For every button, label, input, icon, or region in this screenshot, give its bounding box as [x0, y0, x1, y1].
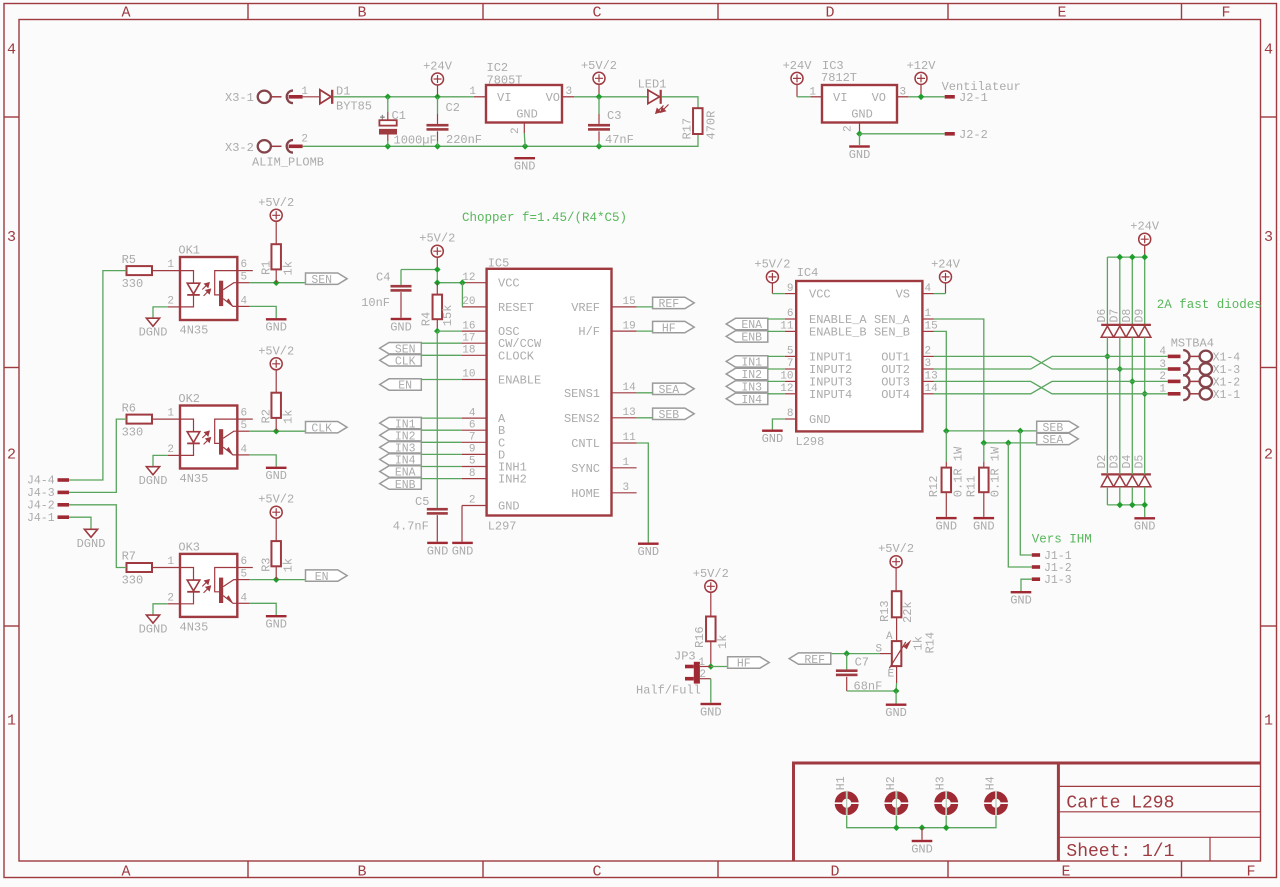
wire R5 to opto	[152, 270, 180, 272]
junction	[596, 94, 603, 101]
svg-text:E: E	[1061, 863, 1070, 880]
wire diode column low	[1144, 487, 1146, 505]
pin 6 stub	[237, 567, 253, 569]
svg-text:Sheet: 1/1: Sheet: 1/1	[1066, 842, 1174, 862]
svg-text:R2: R2	[259, 409, 273, 423]
diode D4	[1126, 476, 1138, 487]
svg-text:3: 3	[7, 229, 16, 246]
svg-text:HF: HF	[662, 322, 676, 335]
net flag REF input	[789, 653, 831, 664]
svg-text:GND: GND	[498, 500, 520, 514]
wire pin4 to GND	[237, 454, 249, 456]
resistor R11	[983, 443, 985, 462]
svg-text:Vers IHM: Vers IHM	[1032, 533, 1092, 547]
svg-text:330: 330	[122, 277, 144, 291]
hole H3	[938, 795, 955, 812]
title block	[794, 763, 1261, 861]
wire SEN_B net	[934, 331, 1037, 431]
svg-text:GND: GND	[700, 705, 722, 719]
svg-text:C2: C2	[446, 101, 460, 115]
svg-text:R13: R13	[878, 600, 892, 622]
svg-text:470R: 470R	[705, 111, 719, 140]
svg-text:+5V/2: +5V/2	[419, 232, 455, 246]
svg-text:JP3: JP3	[674, 649, 696, 663]
pin X1-2	[1168, 380, 1181, 384]
IC4 pin 11	[785, 330, 797, 332]
svg-text:R3: R3	[259, 557, 273, 571]
svg-text:68nF: 68nF	[854, 680, 883, 694]
svg-text:VCC: VCC	[809, 288, 831, 302]
ground GND	[266, 467, 287, 469]
wire J4-1 to DGND	[69, 517, 91, 529]
svg-text:1: 1	[1264, 713, 1273, 730]
wire OUT2 to X1-3	[934, 356, 1168, 369]
diodes D2-D5	[1101, 473, 1151, 475]
svg-text:4N35: 4N35	[180, 324, 209, 338]
junction	[943, 824, 950, 831]
svg-text:2: 2	[301, 134, 308, 146]
svg-text:GND: GND	[973, 520, 995, 534]
svg-text:A: A	[121, 5, 130, 22]
svg-text:4: 4	[7, 42, 16, 59]
ground DGND	[146, 615, 159, 623]
net flag IN4	[726, 393, 768, 404]
junction	[919, 824, 926, 831]
IC5 pin 3	[612, 492, 637, 494]
ground GND IC5	[452, 542, 473, 544]
pin J2-2	[945, 132, 955, 136]
svg-text:OK3: OK3	[178, 540, 200, 554]
svg-text:ENABLE_B: ENABLE_B	[809, 325, 867, 339]
svg-text:SEN_B: SEN_B	[874, 325, 910, 339]
resistor R5	[127, 266, 153, 275]
junction	[273, 576, 280, 583]
IC5 pin 6	[462, 429, 487, 431]
net flag SEA	[653, 383, 695, 394]
wire diode column	[1106, 257, 1108, 324]
svg-text:J4-3: J4-3	[27, 487, 55, 500]
svg-text:H/F: H/F	[578, 325, 600, 339]
svg-text:E: E	[1057, 5, 1066, 22]
svg-text:SEN: SEN	[311, 274, 332, 287]
svg-text:18: 18	[462, 345, 475, 357]
svg-text:J1-3: J1-3	[1044, 574, 1072, 587]
svg-text:2: 2	[167, 444, 174, 456]
svg-text:6: 6	[241, 556, 248, 568]
svg-text:VCC: VCC	[498, 277, 520, 291]
IC5 pin 18	[462, 354, 487, 356]
svg-text:+5V/2: +5V/2	[878, 542, 914, 556]
svg-text:GND: GND	[514, 160, 536, 174]
net flag IN3 input	[380, 442, 422, 453]
svg-text:1k: 1k	[281, 410, 295, 424]
svg-text:GND: GND	[427, 544, 449, 558]
svg-text:47nF: 47nF	[605, 133, 634, 147]
junction	[893, 688, 900, 695]
svg-text:5: 5	[241, 569, 248, 581]
svg-text:7: 7	[469, 432, 476, 444]
svg-text:GND: GND	[516, 108, 538, 122]
opto phototransistor	[219, 578, 223, 603]
ground GND holes	[912, 840, 933, 842]
svg-text:+24V: +24V	[783, 59, 813, 73]
svg-text:3: 3	[1264, 229, 1273, 246]
svg-text:J2-2: J2-2	[959, 128, 988, 142]
wire pin4 to GND	[237, 602, 249, 604]
IC4 pin 2	[922, 355, 934, 357]
svg-text:1: 1	[167, 259, 174, 271]
svg-text:J1-2: J1-2	[1044, 562, 1072, 575]
net flag SEA	[1037, 433, 1079, 444]
hole H4	[988, 795, 1005, 812]
svg-text:J4-2: J4-2	[27, 500, 55, 513]
wire pin2 to DGND	[168, 603, 180, 605]
IC4 pin 3	[922, 368, 934, 370]
svg-text:C1: C1	[392, 109, 406, 123]
svg-text:6: 6	[241, 408, 248, 420]
svg-text:2: 2	[925, 346, 932, 358]
hole H1	[838, 795, 855, 812]
IC5 pin 4	[462, 417, 487, 419]
diode D5	[1139, 476, 1151, 487]
net flag SEN	[306, 273, 348, 284]
resistor R7	[127, 563, 153, 572]
junction	[385, 143, 392, 150]
svg-text:2: 2	[1159, 371, 1166, 383]
junction	[434, 143, 441, 150]
svg-text:OUT4: OUT4	[881, 388, 910, 402]
svg-text:VO: VO	[546, 91, 560, 105]
diode D9	[1139, 326, 1151, 337]
svg-text:ENABLE: ENABLE	[498, 374, 541, 388]
svg-text:15k: 15k	[441, 305, 455, 327]
svg-text:9: 9	[787, 283, 794, 295]
svg-text:GND: GND	[809, 413, 831, 427]
junction	[434, 94, 441, 101]
pin 6 stub	[237, 418, 253, 420]
wire OUT3 to X1-2	[934, 381, 1168, 393]
wire pin2 to DGND	[168, 306, 180, 308]
potentiometer R14	[892, 641, 902, 666]
ground GND	[266, 318, 287, 320]
IC4 pin 6	[785, 318, 797, 320]
wire R7 to opto	[152, 567, 180, 569]
svg-text:C7: C7	[855, 656, 869, 670]
svg-text:DGND: DGND	[139, 474, 168, 488]
svg-text:GND: GND	[851, 108, 873, 122]
ground GND C5	[427, 542, 448, 544]
net flag IN2 input	[380, 430, 422, 441]
svg-text:X1-3: X1-3	[1213, 364, 1241, 377]
ground GND IC4	[762, 430, 783, 432]
svg-text:E: E	[888, 669, 895, 681]
svg-text:Ventilateur: Ventilateur	[942, 80, 1021, 94]
junction	[856, 131, 863, 138]
junction	[385, 94, 392, 101]
hole H2	[888, 795, 905, 812]
wire to GND	[921, 828, 923, 840]
svg-text:+24V: +24V	[931, 257, 961, 271]
svg-text:LED1: LED1	[638, 78, 667, 92]
svg-text:+5V/2: +5V/2	[581, 59, 617, 73]
svg-text:+24V: +24V	[1130, 220, 1160, 234]
IC4 pin 5	[785, 355, 797, 357]
IC5 pin 10	[462, 379, 487, 381]
wire OUT4 to X1-1	[934, 381, 1168, 393]
svg-text:DGND: DGND	[77, 537, 106, 551]
svg-text:3: 3	[925, 358, 932, 370]
wire pin5 out	[237, 430, 249, 432]
svg-text:A: A	[886, 631, 893, 643]
ground GND CNTL	[638, 543, 659, 545]
net flag IN1	[726, 356, 768, 367]
svg-text:J4-1: J4-1	[27, 512, 55, 525]
net flag ENA	[726, 318, 768, 329]
junction	[1017, 428, 1024, 435]
svg-text:EN: EN	[398, 380, 412, 393]
svg-text:X1-2: X1-2	[1213, 377, 1241, 390]
svg-text:OK2: OK2	[178, 392, 200, 406]
svg-text:1k: 1k	[281, 558, 295, 572]
junction	[708, 663, 715, 670]
junction	[1141, 391, 1148, 398]
svg-text:4N35: 4N35	[180, 472, 209, 486]
svg-text:17: 17	[462, 332, 475, 344]
svg-text:2A fast diodes: 2A fast diodes	[1157, 298, 1262, 312]
svg-text:ALIM_PLOMB: ALIM_PLOMB	[252, 156, 324, 170]
svg-text:4: 4	[1159, 346, 1166, 358]
svg-text:SENS2: SENS2	[564, 412, 600, 426]
svg-text:R4: R4	[420, 312, 434, 326]
IC5 pin 5	[462, 466, 487, 468]
ground DGND	[146, 467, 159, 475]
wire diode column	[1119, 257, 1121, 324]
net flag EN input	[380, 379, 422, 390]
svg-text:4: 4	[1264, 42, 1273, 59]
pin J2-1	[945, 95, 955, 99]
svg-text:R16: R16	[693, 626, 707, 648]
wire diode column mid	[1131, 337, 1133, 474]
ground GND R12	[936, 517, 957, 519]
svg-text:10: 10	[462, 369, 475, 381]
wire diode column	[1131, 257, 1133, 324]
wire OSC net down to C5	[437, 330, 462, 332]
net flag IN4 input	[380, 454, 422, 465]
wire C7 to gnd node	[847, 690, 896, 692]
wire holes gnd bus	[847, 816, 996, 828]
wire to J1-1	[1020, 431, 1032, 555]
svg-text:4: 4	[469, 407, 476, 419]
wire diode column low	[1131, 487, 1133, 505]
svg-text:220nF: 220nF	[446, 133, 482, 147]
svg-text:RESET: RESET	[498, 301, 534, 315]
svg-text:330: 330	[122, 574, 144, 588]
pin J1-2	[1032, 565, 1040, 569]
IC5 pin 16	[462, 330, 487, 332]
IC5 pin 12	[462, 282, 487, 284]
svg-text:1: 1	[167, 408, 174, 420]
svg-text:R7: R7	[122, 550, 136, 564]
net flag ENA input	[380, 466, 422, 477]
svg-text:CLOCK: CLOCK	[498, 349, 535, 363]
IC4 pin 10	[785, 380, 797, 382]
svg-text:D: D	[830, 863, 839, 880]
IC5 pin 20	[462, 306, 487, 308]
svg-text:CNTL: CNTL	[571, 437, 600, 451]
svg-text:REF: REF	[804, 654, 825, 667]
wire R6 to opto	[152, 418, 180, 420]
svg-text:H1: H1	[835, 776, 848, 790]
wire pin5 out	[237, 282, 249, 284]
wire CNTL to GND	[637, 443, 649, 543]
svg-text:+5V/2: +5V/2	[258, 344, 294, 358]
diodes D6-D9	[1101, 324, 1151, 326]
net flag ENB input	[380, 478, 422, 489]
resistor R4	[436, 283, 438, 295]
svg-text:DGND: DGND	[139, 326, 168, 340]
ground DGND	[146, 318, 159, 326]
opto internal LED	[180, 419, 194, 432]
svg-text:OK1: OK1	[178, 244, 200, 258]
junction	[918, 94, 925, 101]
svg-text:1: 1	[167, 556, 174, 568]
wire J4-4 to R5	[69, 271, 127, 480]
svg-text:8: 8	[469, 468, 476, 480]
svg-text:C: C	[592, 5, 601, 22]
pin 6 stub	[237, 270, 253, 272]
net flag SEB	[653, 408, 695, 419]
junction	[843, 650, 850, 657]
wire pin4 to GND	[237, 305, 249, 307]
junction	[434, 328, 441, 335]
junction	[434, 279, 441, 286]
IC5 pin 17	[462, 342, 487, 344]
svg-text:2: 2	[167, 592, 174, 604]
svg-text:2: 2	[843, 125, 855, 132]
diode D1	[320, 90, 331, 104]
ground GND C4	[391, 318, 412, 320]
opto phototransistor	[219, 281, 223, 306]
net flag IN2	[726, 368, 768, 379]
svg-text:Chopper f=1.45/(R4*C5): Chopper f=1.45/(R4*C5)	[462, 211, 627, 225]
IC4 pin 14	[922, 393, 934, 395]
net flag HF out	[711, 666, 728, 668]
junction	[1104, 353, 1111, 360]
svg-text:22k: 22k	[901, 601, 915, 623]
wire JP3 pin2 to GND	[700, 678, 711, 680]
resistor R2 pull-up	[275, 370, 277, 393]
IC4 pin 12	[785, 393, 797, 395]
svg-text:+5V/2: +5V/2	[693, 567, 729, 581]
svg-text:0.1R 1W: 0.1R 1W	[952, 446, 966, 497]
svg-text:R11: R11	[965, 476, 979, 498]
IC4 pin 1	[922, 318, 934, 320]
ground GND diodes	[1134, 517, 1155, 519]
net flag CLK input	[380, 355, 422, 366]
svg-text:GND: GND	[265, 469, 287, 483]
wire LED to R17	[662, 97, 698, 108]
svg-text:11: 11	[623, 432, 637, 444]
pin J1-1	[1032, 553, 1040, 557]
diode D8	[1126, 326, 1138, 337]
svg-text:R1: R1	[259, 261, 273, 275]
ground DGND J4	[84, 529, 97, 537]
svg-text:BYT85: BYT85	[336, 100, 372, 114]
wire VCC to RESET	[461, 283, 463, 307]
svg-text:VS: VS	[896, 288, 910, 302]
net flag HF	[653, 321, 695, 332]
junction	[273, 428, 280, 435]
svg-text:D8: D8	[1121, 309, 1134, 323]
svg-text:GND: GND	[935, 520, 957, 534]
svg-text:1: 1	[925, 308, 932, 320]
svg-text:SEB: SEB	[658, 409, 679, 422]
net flag SEB	[1037, 421, 1079, 432]
IC5 pin 2	[462, 505, 487, 507]
svg-text:HOME: HOME	[571, 487, 600, 501]
svg-text:D9: D9	[1133, 309, 1146, 323]
junction	[1117, 254, 1124, 261]
svg-text:3: 3	[1159, 359, 1166, 371]
diode D6	[1101, 326, 1113, 337]
svg-text:GND: GND	[637, 545, 659, 559]
svg-text:X1-4: X1-4	[1213, 352, 1241, 365]
wire net +24V top	[333, 96, 474, 98]
svg-text:H4: H4	[985, 776, 998, 790]
wire J1-3 to GND	[1021, 579, 1032, 591]
opto phototransistor	[219, 429, 223, 454]
svg-text:REF: REF	[658, 298, 679, 311]
wire R14 bottom	[896, 666, 898, 683]
svg-text:J4-4: J4-4	[27, 475, 55, 488]
svg-text:1000µF: 1000µF	[394, 134, 437, 148]
svg-text:6: 6	[241, 259, 248, 271]
svg-text:6: 6	[787, 308, 794, 320]
svg-text:VI: VI	[833, 91, 847, 105]
wire diode gnd bus	[1107, 505, 1144, 517]
svg-text:330: 330	[122, 425, 144, 439]
svg-text:MSTBA4: MSTBA4	[1171, 336, 1214, 350]
svg-text:SEA: SEA	[1043, 434, 1064, 447]
junction	[273, 279, 280, 286]
opto photon arrows	[202, 283, 210, 296]
svg-text:1k: 1k	[281, 261, 295, 275]
IC5 pin 7	[462, 441, 487, 443]
wire diode column mid	[1144, 337, 1146, 474]
svg-text:+5V/2: +5V/2	[258, 196, 294, 210]
svg-text:CLK: CLK	[311, 422, 332, 435]
svg-text:15: 15	[623, 296, 636, 308]
ground GND R14	[886, 704, 907, 706]
IC5 pin 1	[612, 467, 637, 469]
svg-text:GND: GND	[849, 148, 871, 162]
svg-text:GND: GND	[762, 432, 784, 446]
IC5 pin 19	[612, 330, 637, 332]
svg-text:R12: R12	[927, 476, 941, 498]
svg-text:5: 5	[241, 420, 248, 432]
resistor R13	[895, 568, 897, 591]
svg-text:GND: GND	[911, 842, 933, 856]
svg-text:13: 13	[623, 407, 636, 419]
svg-text:1k: 1k	[716, 635, 730, 649]
junction	[596, 143, 603, 150]
svg-text:D: D	[825, 5, 834, 22]
svg-text:C5: C5	[415, 495, 429, 509]
svg-text:SEA: SEA	[658, 384, 679, 397]
wire diode column	[1144, 257, 1146, 324]
junction	[1129, 254, 1136, 261]
wire gnd rail	[303, 134, 698, 146]
